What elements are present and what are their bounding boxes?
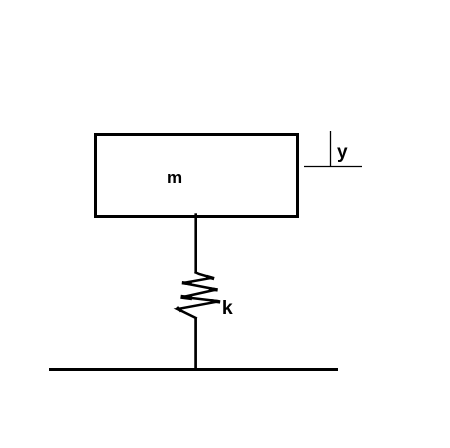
svg-text:m: m xyxy=(167,168,182,187)
svg-text:y: y xyxy=(337,142,348,163)
mass block M (rectangle) xyxy=(96,135,298,217)
ground line xyxy=(49,368,338,371)
node: displacement reference horizontal line xyxy=(304,166,362,168)
wire: lower rod from spring bottom to ground xyxy=(194,318,197,370)
wire: upper rod from mass bottom to spring top xyxy=(194,213,197,273)
spring K (hand-drawn zigzag) xyxy=(178,273,220,319)
node: displacement reference vertical tick xyxy=(330,131,332,167)
svg-text:k: k xyxy=(222,297,233,319)
